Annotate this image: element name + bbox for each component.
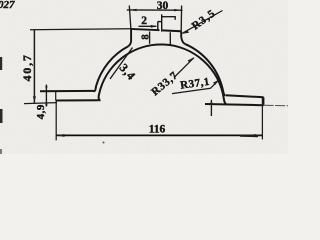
- dim 4.9 lower arrowhead: [45, 100, 47, 105]
- profile outline: left flange bottom line: [56, 99, 98, 101]
- right flange top line: [226, 95, 264, 97]
- svg-text:116: 116: [149, 124, 166, 136]
- svg-text:40,7: 40,7: [20, 53, 34, 81]
- dim 3.4 diagonal leader across wall: [110, 48, 133, 80]
- dim 4.9 vertical dimension line: [45, 85, 47, 107]
- bottom-left corner smudge: [0, 149, 2, 154]
- tab top line left part: [131, 29, 160, 30]
- tab right edge: [181, 31, 185, 44]
- small nub right side / extension up: [161, 14, 163, 31]
- R3.5 leader line with arrowhead: [183, 11, 223, 34]
- dim 116 left extension line: [55, 100, 57, 140]
- svg-text:2: 2: [141, 15, 147, 27]
- small nub top: [158, 21, 162, 23]
- bottom speck: [103, 142, 105, 144]
- dim 30 right extension line: [180, 6, 182, 32]
- right flange right edge: [263, 97, 265, 105]
- R33.7 leader line with arrowhead: [174, 58, 194, 78]
- svg-text:4,9: 4,9: [35, 104, 47, 119]
- dim 40.7 bottom extension line: [24, 103, 57, 104]
- dim 30 right arrowhead: [174, 9, 181, 12]
- dim 30 left arrowhead: [130, 9, 137, 12]
- dim 116 right extension line: [261, 97, 263, 139]
- right flange bottom extension to image edge: [264, 104, 288, 107]
- small nub on tab top: left side: [157, 22, 159, 30]
- left edge smudge upper: [0, 57, 2, 70]
- right flange bottom line: [205, 104, 264, 105]
- dim 4.9 upper arrowhead: [45, 86, 47, 91]
- profile outline: left flange top line: [40, 90, 93, 92]
- small up-arrow below right flange: [210, 100, 212, 116]
- svg-text:027: 027: [0, 0, 15, 11]
- dim 116 left arrowhead: [57, 134, 65, 137]
- left edge smudge lower: [0, 109, 3, 123]
- dim 116 right-end dark smudge: [240, 135, 258, 137]
- outer arch arc left (R37.1 outer surface): [93, 46, 128, 91]
- tab top line right part: [162, 29, 181, 32]
- dim 40.7 top extension line (tab top level): [30, 29, 131, 30]
- dim 40.7 bottom arrowhead: [33, 96, 36, 103]
- dim 2 leader line with right arrowhead: [139, 25, 157, 27]
- dim 30 left extension line: [129, 6, 131, 29]
- dim 8 left vertical line: [149, 32, 151, 44]
- dim 2 right hook line: [162, 17, 176, 20]
- dim 116 right arrowhead: [254, 134, 262, 137]
- inner arch arc full (R33.7 inner surface): [98, 45, 226, 105]
- profile outline: left flange left edge: [55, 91, 57, 100]
- dim 40.7 vertical dimension line: [33, 30, 35, 104]
- svg-text:30: 30: [157, 0, 169, 12]
- dim 30 dimension line: [127, 9, 183, 11]
- svg-text:8: 8: [141, 34, 152, 39]
- tab left edge: [128, 29, 131, 46]
- dim 116 dimension line: [56, 134, 262, 136]
- R37.1 leader line with arrowhead: [172, 80, 219, 94]
- dim 8 right vertical line: [169, 32, 171, 45]
- outer arch arc right: [186, 44, 226, 95]
